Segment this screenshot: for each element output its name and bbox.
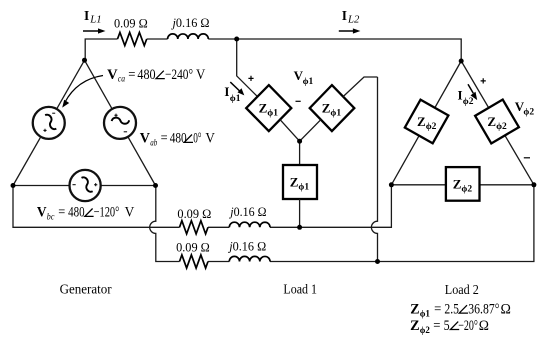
svg-text:5: 5 xyxy=(444,318,450,334)
generator triangle right leg xyxy=(85,60,156,185)
minus sign load1 xyxy=(296,100,301,102)
wire center node down to Zphi1 box xyxy=(299,141,301,165)
svg-text:Z: Z xyxy=(290,174,299,189)
wire bottom line from generator bottom-right vertex with hop over middle line xyxy=(150,185,534,262)
curved arrow from Vca label to source xyxy=(65,76,103,103)
svg-text:0°: 0° xyxy=(193,131,201,147)
svg-text:j0.16 Ω: j0.16 Ω xyxy=(171,15,210,30)
impedance Zphi1 box xyxy=(283,165,317,199)
svg-text:ϕ2: ϕ2 xyxy=(420,326,430,336)
svg-text:=: = xyxy=(434,301,441,317)
svg-text:ϕ2: ϕ2 xyxy=(461,184,472,194)
junction node vertical drop to bottom line xyxy=(375,259,380,264)
svg-text:Z: Z xyxy=(487,114,496,129)
junction node load1 to middle line xyxy=(297,225,302,230)
impedance Zphi1 diamond right xyxy=(310,85,355,131)
svg-text:V: V xyxy=(140,131,151,147)
svg-text:−120°: −120° xyxy=(94,205,120,221)
svg-text:ϕ2: ϕ2 xyxy=(463,97,474,107)
voltage label Vab = 480angle0 V xyxy=(140,131,216,149)
wire diamond1 to center node xyxy=(280,120,300,142)
svg-text:ϕ1: ϕ1 xyxy=(298,182,309,192)
generator triangle left leg xyxy=(13,60,85,185)
plus sign load1 xyxy=(248,76,253,81)
svg-text:Ω: Ω xyxy=(501,301,512,317)
load2 triangle left leg xyxy=(391,61,461,185)
svg-text:Z: Z xyxy=(453,176,462,191)
resistor R3 0.09 ohm bottom line xyxy=(180,255,208,268)
voltage label Vca = 480angle-240 V xyxy=(107,67,206,85)
arrow IL2 xyxy=(339,30,356,32)
svg-text:V: V xyxy=(107,67,118,83)
load2 triangle right leg xyxy=(461,61,534,185)
resistor R2 0.09 ohm middle line xyxy=(180,221,208,234)
minus sign load2 xyxy=(524,157,530,159)
junction node load2 bottom-left vertex xyxy=(389,182,394,187)
svg-text:−240°: −240° xyxy=(165,67,193,83)
svg-text:V: V xyxy=(205,131,215,147)
junction node generator bottom-right vertex xyxy=(153,183,158,188)
svg-text:L2: L2 xyxy=(347,15,359,26)
svg-text:I: I xyxy=(224,84,229,99)
svg-text:480: 480 xyxy=(170,131,187,147)
wire diamond2 to center node xyxy=(300,120,321,142)
svg-text:480: 480 xyxy=(137,67,155,83)
svg-text:I: I xyxy=(84,8,89,23)
svg-text:ϕ1: ϕ1 xyxy=(420,309,431,319)
svg-text:Ω: Ω xyxy=(479,318,489,334)
junction node load2 bottom-right vertex xyxy=(531,182,536,187)
svg-text:ab: ab xyxy=(150,138,157,148)
svg-text:ϕ2: ϕ2 xyxy=(496,122,507,132)
svg-text:ϕ1: ϕ1 xyxy=(330,108,341,118)
wire middle line from generator bottom-left vertex xyxy=(13,185,391,228)
svg-text:Z: Z xyxy=(259,100,268,115)
arrow IL1 xyxy=(83,30,101,32)
AC source Vbc circle xyxy=(70,170,101,201)
arrow Iphi2 xyxy=(468,84,473,93)
junction node load1 diamonds bottom xyxy=(297,139,302,144)
svg-text:Generator: Generator xyxy=(60,282,112,297)
svg-text:Load 2: Load 2 xyxy=(445,282,479,297)
wire vertical drop with hop over middle line xyxy=(371,77,377,262)
svg-text:Z: Z xyxy=(410,318,420,334)
svg-text:ϕ2: ϕ2 xyxy=(426,122,437,132)
impedance Zphi2 right leg box xyxy=(475,100,519,144)
svg-text:ϕ1: ϕ1 xyxy=(267,108,278,118)
impedance Zphi2 left leg box xyxy=(405,100,449,144)
impedance Zphi2 bottom box xyxy=(446,167,480,201)
svg-text:ϕ2: ϕ2 xyxy=(523,108,534,118)
AC source Vab circle xyxy=(104,107,136,139)
svg-text:j0.16 Ω: j0.16 Ω xyxy=(228,204,266,219)
svg-text:0.09 Ω: 0.09 Ω xyxy=(177,206,211,221)
voltage label Vbc = 480angle-120 V xyxy=(37,205,135,223)
impedance Zphi1 diamond left xyxy=(246,85,291,131)
generator triangle bottom edge xyxy=(13,185,156,187)
inductor L1 j0.16 ohm top line xyxy=(168,34,209,39)
junction node top wire to load1 xyxy=(234,37,239,42)
svg-text:Z: Z xyxy=(410,301,419,317)
svg-text:bc: bc xyxy=(47,212,55,222)
svg-text:=: = xyxy=(433,318,440,334)
svg-text:Load 1: Load 1 xyxy=(283,282,317,297)
junction node generator top vertex xyxy=(82,58,87,63)
svg-text:j0.16 Ω: j0.16 Ω xyxy=(227,238,266,253)
svg-text:=: = xyxy=(58,205,65,221)
junction node generator bottom-left vertex xyxy=(11,183,16,188)
svg-text:2.5: 2.5 xyxy=(444,301,459,317)
svg-text:=: = xyxy=(128,67,135,83)
svg-text:Z: Z xyxy=(417,114,426,129)
svg-text:V: V xyxy=(196,67,206,83)
wire diamond2 up and over to vertical drop xyxy=(343,77,377,97)
load2 triangle bottom edge xyxy=(391,184,534,186)
plus sign load2 xyxy=(481,78,486,83)
inductor L3 j0.16 ohm bottom line xyxy=(229,256,270,261)
svg-text:ca: ca xyxy=(118,74,125,84)
equation Zphi2 value xyxy=(410,318,489,336)
wire Zphi1 box down to middle line xyxy=(299,199,301,227)
junction node load2 top vertex xyxy=(459,59,464,64)
svg-text:0.09 Ω: 0.09 Ω xyxy=(176,239,210,254)
AC source Vca circle xyxy=(33,107,65,139)
svg-text:L1: L1 xyxy=(89,15,101,26)
svg-text:Z: Z xyxy=(322,100,331,115)
svg-text:V: V xyxy=(37,205,47,221)
svg-text:36.87°: 36.87° xyxy=(468,301,499,317)
svg-text:I: I xyxy=(458,88,463,103)
svg-text:−20°: −20° xyxy=(458,318,478,334)
svg-text:I: I xyxy=(342,8,347,23)
svg-text:ϕ1: ϕ1 xyxy=(230,94,241,104)
wire load1 drop from top node xyxy=(237,39,258,97)
equation Zphi1 value xyxy=(410,301,511,319)
svg-text:V: V xyxy=(125,205,135,221)
svg-text:ϕ1: ϕ1 xyxy=(303,77,314,87)
svg-text:=: = xyxy=(161,131,168,147)
arrow Iphi1 xyxy=(230,82,240,91)
wire top line left segment xyxy=(85,39,461,61)
svg-text:0.09 Ω: 0.09 Ω xyxy=(114,15,148,30)
svg-text:480: 480 xyxy=(68,205,85,221)
resistor R1 0.09 ohm top line xyxy=(118,32,147,45)
inductor L2 j0.16 ohm middle line xyxy=(229,222,270,227)
